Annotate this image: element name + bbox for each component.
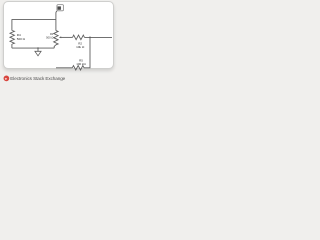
wire: bottom-left of R3 (cropped)	[56, 67, 72, 69]
ground symbol	[35, 51, 41, 56]
svg-text:500 Ω: 500 Ω	[46, 36, 53, 40]
wire: bottom rail (ground net)	[12, 47, 54, 49]
ground stem	[37, 48, 39, 51]
net flag V (5V) tail wire	[56, 11, 57, 20]
wire: left rail upper	[11, 19, 13, 30]
net flag V box	[57, 5, 64, 11]
wire: wiper output to R2	[61, 36, 73, 38]
wire: pot bottom lead	[54, 45, 56, 48]
wire: left rail lower	[11, 44, 13, 48]
card background	[3, 1, 115, 70]
svg-text:500 Ω: 500 Ω	[17, 37, 26, 41]
net flag V label text	[58, 6, 61, 9]
junction dot at R2/right-rail node	[89, 37, 91, 39]
potentiometer R1 (500 Ohm, middle vertical)	[54, 31, 58, 45]
potentiometer R1 wiper arrowhead	[59, 36, 61, 38]
resistor R4 (500 Ohm, left vertical)	[10, 31, 14, 45]
site logo white spark	[5, 78, 8, 80]
wire: top rail	[12, 19, 56, 21]
svg-text:Electronics Stack Exchange: Electronics Stack Exchange	[10, 76, 65, 81]
wire: right rail down to R3	[84, 37, 90, 67]
resistor R3 (100k, bottom horizontal)	[72, 66, 84, 70]
wire: pot top lead	[55, 20, 57, 31]
wire: R2 to right edge (cropped)	[85, 36, 113, 38]
svg-text:10k Ω: 10k Ω	[76, 45, 85, 49]
svg-text:100 kΩ: 100 kΩ	[76, 62, 86, 66]
site logo dot	[4, 76, 10, 82]
resistor R2 (10k, horizontal)	[73, 35, 85, 40]
svg-text:R1: R1	[50, 32, 54, 36]
junction dot at ground tap	[37, 47, 39, 49]
